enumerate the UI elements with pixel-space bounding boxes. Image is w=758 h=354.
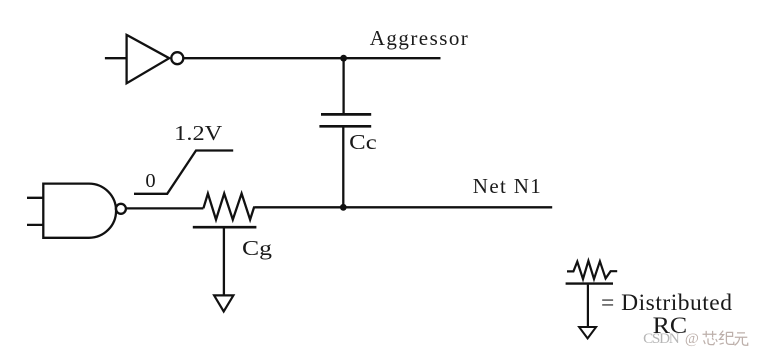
wire Cc bottom to Net N1: [342, 128, 344, 208]
wire inverter input: [105, 57, 127, 59]
inverter U1: [127, 35, 170, 83]
resistor R1 (distributed RC): [203, 194, 254, 220]
wire Net N1: [254, 206, 552, 208]
wire Cg to ground: [223, 228, 225, 295]
legend capacitor plate: [566, 282, 613, 284]
capacitor Cg plate: [193, 226, 257, 229]
node junction on Net N1: [340, 204, 347, 211]
inverter output bubble: [171, 52, 183, 64]
capacitor Cc bottom plate: [319, 125, 371, 128]
NAND output bubble: [116, 204, 126, 214]
svg-text:Cc: Cc: [349, 130, 377, 154]
svg-text:Aggressor: Aggressor: [370, 26, 468, 50]
NAND gate U2: [43, 184, 116, 238]
watermark char yuan: [735, 333, 748, 346]
svg-text:CSDN: CSDN: [643, 330, 680, 347]
legend resistor: [567, 261, 617, 279]
watermark char xin: [703, 331, 718, 345]
watermark char ji: [720, 331, 734, 345]
waveform 0 to 1.2V ramp: [134, 151, 233, 194]
capacitor Cc top plate: [321, 113, 371, 116]
svg-text:0: 0: [145, 170, 155, 192]
wire NAND output to resistor: [126, 207, 203, 209]
wire inverter output (Aggressor net): [183, 57, 441, 59]
svg-text:@: @: [685, 330, 699, 347]
svg-text:1.2V: 1.2V: [174, 121, 223, 145]
ground symbol (main): [214, 295, 233, 311]
svg-text:Net N1: Net N1: [473, 174, 541, 198]
wire NAND input A: [27, 197, 43, 199]
wire NAND input B: [27, 224, 43, 226]
node junction on Aggressor net: [340, 55, 347, 62]
svg-text:Cg: Cg: [242, 236, 272, 260]
wire junction to Cc top: [342, 58, 344, 114]
legend wire to ground: [587, 285, 589, 327]
legend ground symbol: [579, 327, 596, 338]
